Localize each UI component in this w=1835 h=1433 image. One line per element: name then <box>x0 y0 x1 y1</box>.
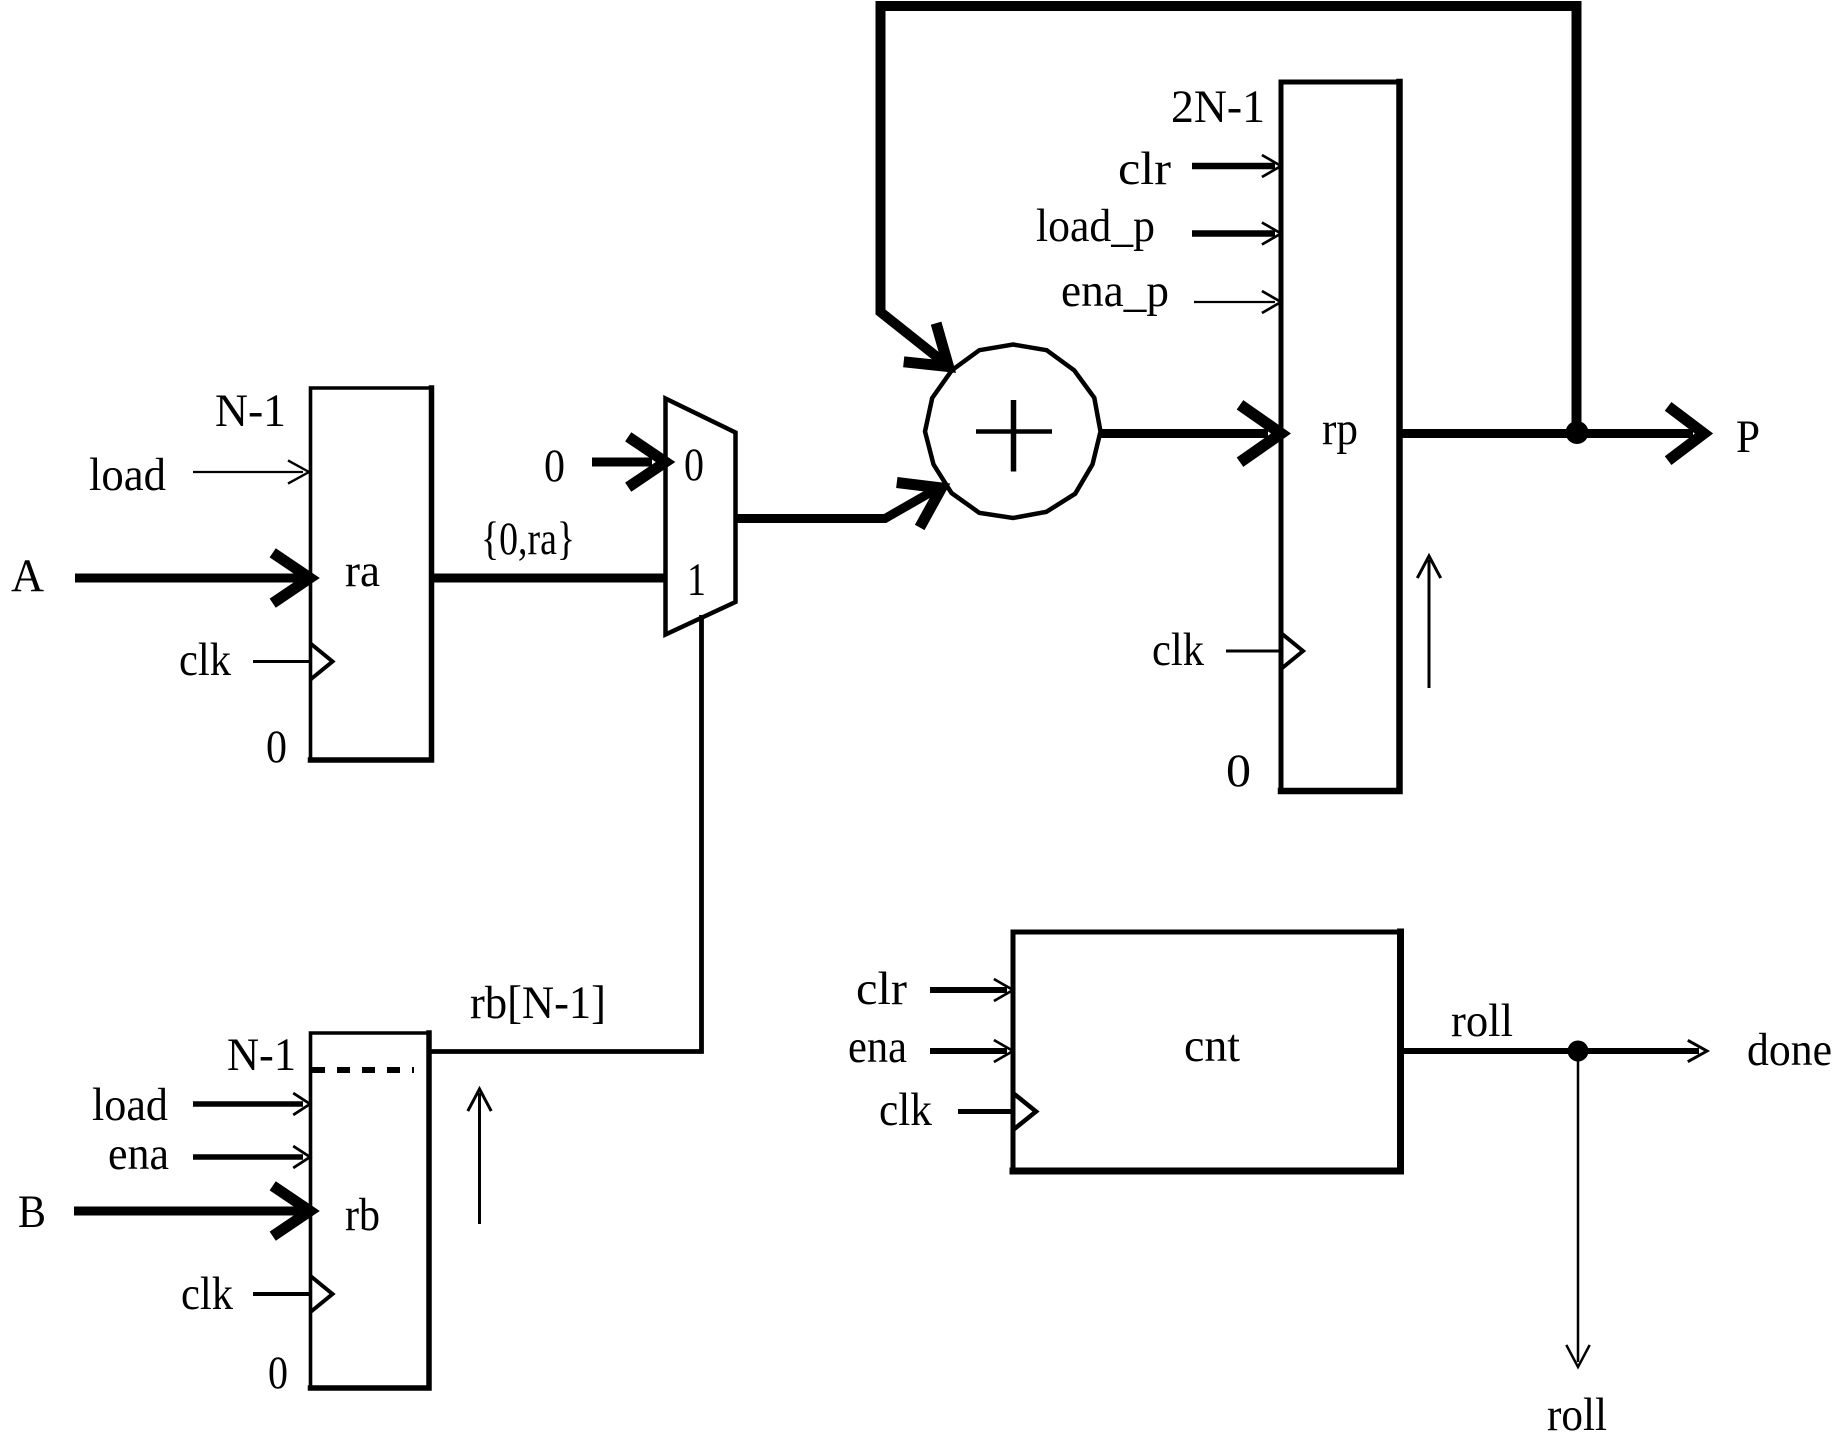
svg-text:clk: clk <box>879 1084 932 1136</box>
svg-text:N-1: N-1 <box>227 1029 296 1081</box>
svg-text:clk: clk <box>179 634 231 686</box>
svg-text:0: 0 <box>544 440 565 492</box>
svg-text:1: 1 <box>687 554 706 606</box>
svg-text:roll: roll <box>1451 995 1513 1047</box>
svg-text:0: 0 <box>1226 745 1251 797</box>
svg-text:A: A <box>11 550 44 602</box>
svg-text:load: load <box>89 449 166 501</box>
svg-text:rp: rp <box>1322 403 1358 455</box>
svg-text:rb: rb <box>345 1189 380 1241</box>
svg-text:ena: ena <box>108 1128 169 1180</box>
svg-text:clk: clk <box>181 1268 233 1320</box>
svg-text:ena: ena <box>848 1021 907 1073</box>
svg-text:clr: clr <box>856 963 907 1015</box>
svg-text:rb[N-1]: rb[N-1] <box>470 977 606 1029</box>
svg-text:cnt: cnt <box>1184 1020 1240 1072</box>
svg-text:clr: clr <box>1118 143 1171 195</box>
svg-text:roll: roll <box>1547 1389 1607 1433</box>
svg-text:ra: ra <box>345 545 380 597</box>
svg-text:0: 0 <box>268 1347 288 1399</box>
svg-text:ena_p: ena_p <box>1061 265 1169 317</box>
svg-text:load_p: load_p <box>1036 200 1155 252</box>
svg-text:{0,ra}: {0,ra} <box>481 513 575 565</box>
svg-text:B: B <box>18 1186 46 1238</box>
svg-text:0: 0 <box>684 439 704 491</box>
svg-text:done: done <box>1747 1024 1832 1076</box>
svg-text:P: P <box>1736 411 1760 463</box>
svg-text:0: 0 <box>266 721 287 773</box>
svg-text:load: load <box>92 1079 168 1131</box>
svg-text:2N-1: 2N-1 <box>1171 81 1265 133</box>
svg-text:clk: clk <box>1152 624 1204 676</box>
svg-text:N-1: N-1 <box>215 385 286 437</box>
